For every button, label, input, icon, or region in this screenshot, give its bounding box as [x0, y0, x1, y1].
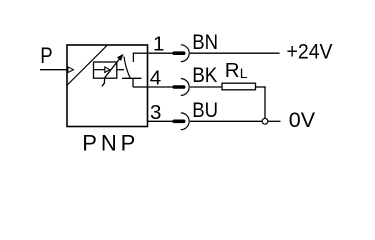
- diagonal flag line: [67, 45, 107, 85]
- svg-text:R: R: [225, 59, 240, 82]
- connector socket arc 3: [181, 113, 189, 130]
- svg-text:3: 3: [150, 101, 161, 124]
- svg-text:+24V: +24V: [287, 40, 334, 64]
- svg-text:P: P: [40, 43, 52, 68]
- connector pin bar 1: [172, 51, 185, 55]
- wire P input: [40, 69, 67, 71]
- svg-text:0V: 0V: [289, 108, 316, 132]
- connector socket arc 1: [181, 45, 189, 62]
- wire BU: [190, 120, 262, 122]
- wire pin4 inside: [133, 86, 148, 88]
- node junction circle: [262, 118, 268, 124]
- wire BN: [190, 52, 280, 54]
- wire 0V: [268, 120, 281, 122]
- wire pin4 stub: [148, 86, 173, 88]
- wire inside element: [94, 69, 105, 71]
- svg-text:BU: BU: [192, 98, 218, 122]
- connector socket arc 4: [181, 79, 189, 96]
- P input arrowhead: [68, 67, 74, 73]
- resistor RL: [222, 83, 256, 90]
- wire pin3 stub: [148, 120, 173, 122]
- coupling stub: [117, 69, 124, 71]
- wire pin1 stub: [148, 52, 173, 54]
- switch upper contact stub: [132, 53, 134, 62]
- svg-text:4: 4: [150, 67, 161, 90]
- adjust arrow shaft: [102, 59, 119, 86]
- svg-text:PNP: PNP: [82, 131, 139, 156]
- connector pin bar 4: [172, 85, 185, 89]
- wire drop to 0V: [264, 86, 266, 118]
- switch lower contact bar: [122, 77, 142, 79]
- connector pin bar 3: [172, 120, 185, 124]
- adjust arrowhead: [118, 55, 123, 61]
- switch lower contact stem: [132, 78, 134, 87]
- wire resistor to corner: [256, 86, 266, 88]
- svg-text:BN: BN: [192, 30, 218, 54]
- element inner arrowhead: [105, 67, 110, 72]
- sensor element box: [94, 62, 117, 78]
- sensor outline box: [67, 45, 148, 127]
- svg-text:L: L: [240, 65, 248, 81]
- svg-text:BK: BK: [192, 63, 218, 87]
- wire pin1 inside: [133, 52, 148, 54]
- wire BK: [190, 86, 223, 88]
- svg-text:1: 1: [153, 32, 164, 55]
- switch blade: [124, 57, 130, 78]
